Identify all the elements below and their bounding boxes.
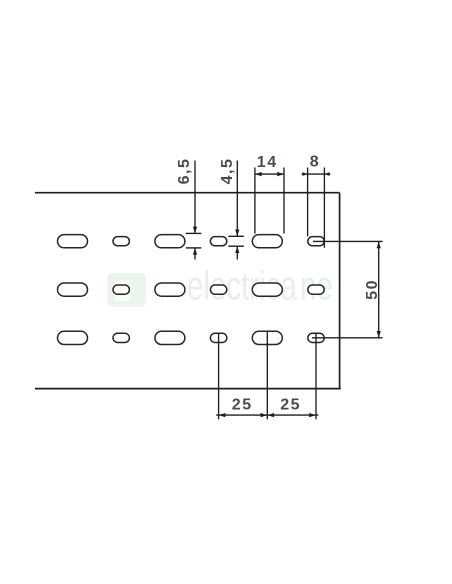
dim 25 arrow at right <box>309 413 316 417</box>
slot hole row3 col1 <box>58 331 88 344</box>
strip top edge <box>35 192 340 194</box>
oval hole row2 col6 <box>308 285 324 294</box>
dim 6,5 bottom tick <box>186 247 202 249</box>
slot hole row2 col3 <box>155 283 185 296</box>
dim 14 left extension line <box>254 168 256 234</box>
oval hole row1 col2 <box>113 237 129 246</box>
dim 8 dimension line <box>302 173 331 175</box>
dim 4,5 lower arrow <box>235 246 239 253</box>
dim 4,5 upper arrow <box>235 230 239 237</box>
dim 8 left arrow <box>302 172 307 176</box>
dim 50 bottom arrow <box>377 331 381 338</box>
strip right end edge <box>339 193 341 389</box>
dim 6,5 upper dimension line <box>194 161 196 234</box>
watermark logo square <box>108 273 147 307</box>
slot hole row2 col1 <box>58 283 88 296</box>
dim 14 dimension line <box>255 173 284 175</box>
svg-text:14: 14 <box>257 154 278 171</box>
svg-text:25: 25 <box>280 397 301 414</box>
dim 4,5 top tick <box>228 235 244 237</box>
oval hole row3 col4 <box>210 333 226 342</box>
dim 14 right arrow <box>277 172 284 176</box>
oval hole row2 col4 <box>210 285 226 294</box>
dim 6,5 upper arrow <box>193 227 197 234</box>
oval hole row3 col2 <box>113 333 129 342</box>
dim 8 right arrow <box>324 172 329 176</box>
dim 4,5 lower dimension line <box>236 246 238 259</box>
dim 25 left extension line <box>218 333 220 419</box>
dim 25 arrow at left <box>219 413 226 417</box>
slot hole row1 col5 <box>252 235 282 248</box>
slot hole row3 col5 <box>252 331 282 344</box>
dim 6,5 lower arrow <box>193 248 197 255</box>
dim 25 right extension line <box>315 333 317 419</box>
slot hole row2 col5 <box>252 283 282 296</box>
strip bottom edge <box>35 388 341 390</box>
dim 14 right extension line <box>283 168 285 234</box>
oval hole row3 col6 <box>308 333 324 342</box>
dim 6,5 top tick <box>186 232 202 234</box>
oval hole row1 col6 <box>308 237 324 246</box>
oval hole row2 col2 <box>113 285 129 294</box>
svg-text:6,5: 6,5 <box>176 158 193 185</box>
oval hole row1 col4 <box>210 237 226 246</box>
dim 50 top arrow <box>377 241 381 248</box>
dim 8 right extension line <box>323 168 325 248</box>
dim 4,5 upper dimension line <box>236 161 238 237</box>
svg-text:8: 8 <box>310 154 320 171</box>
watermark logo inner mark <box>115 281 130 302</box>
svg-text:25: 25 <box>232 397 253 414</box>
slot hole row1 col3 <box>155 235 185 248</box>
dim 6,5 lower dimension line <box>194 248 196 260</box>
dim 50 dimension line <box>378 241 380 337</box>
slot hole row3 col3 <box>155 331 185 344</box>
svg-text:4,5: 4,5 <box>219 158 236 185</box>
dim 50 top extension line <box>313 240 383 242</box>
dim 8 left extension line <box>307 168 309 237</box>
slot hole row1 col1 <box>58 235 88 248</box>
dim 25 dimension line <box>216 414 318 416</box>
dim 14 left arrow <box>255 172 262 176</box>
dim 25 arrows at middle <box>261 413 268 417</box>
dim 25 middle extension line <box>266 332 268 420</box>
dim 4,5 bottom tick <box>228 245 244 247</box>
dim 50 bottom extension line <box>312 337 383 339</box>
